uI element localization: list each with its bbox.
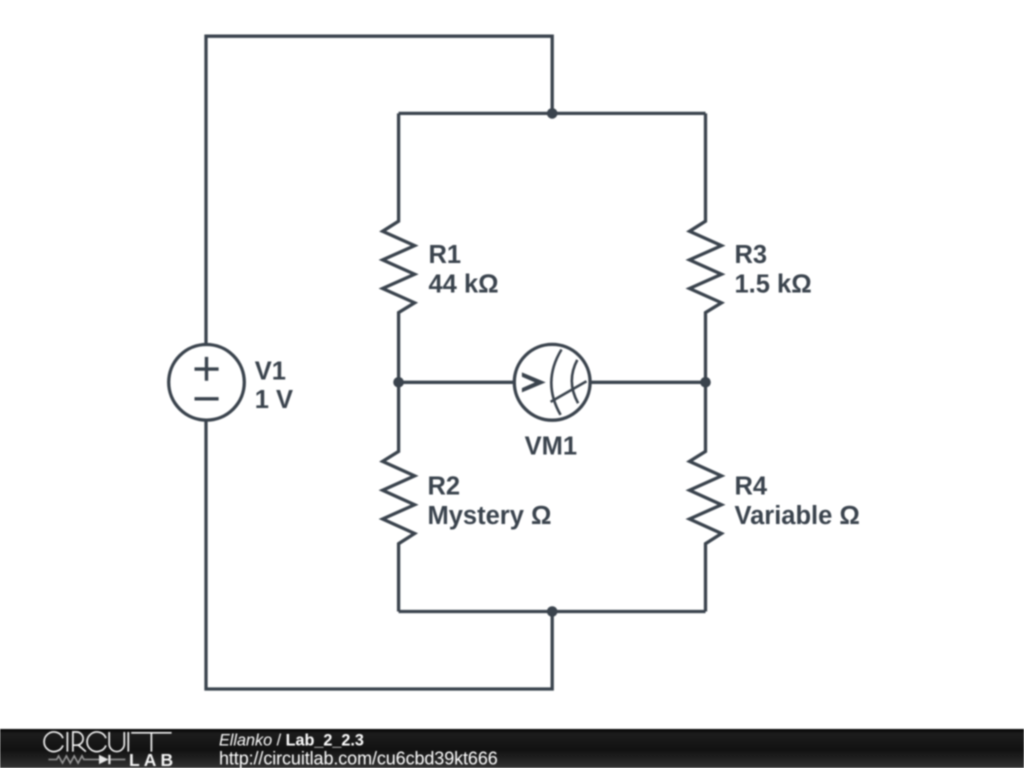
logo letter C <box>87 732 106 752</box>
junction node top <box>547 108 558 119</box>
svg-text:V1: V1 <box>255 357 286 385</box>
svg-text:VM1: VM1 <box>525 433 577 461</box>
svg-text:1.5 kΩ: 1.5 kΩ <box>735 271 812 299</box>
resistor R1 <box>383 113 415 382</box>
voltmeter chevron <box>522 372 546 392</box>
wire middle rail right <box>590 381 705 384</box>
svg-text:R4: R4 <box>735 473 768 501</box>
svg-text:http://circuitlab.com/cu6cbd39: http://circuitlab.com/cu6cbd39kt666 <box>219 748 498 768</box>
wire V1 bottom stub <box>206 421 552 689</box>
logo letter C <box>44 732 63 752</box>
svg-text:Ellanko / Lab_2_2.3: Ellanko / Lab_2_2.3 <box>219 731 364 749</box>
V1 plus sign <box>195 357 219 381</box>
resistor R4 <box>690 382 722 611</box>
resistor R2 <box>383 382 415 611</box>
V1 minus sign <box>195 397 219 400</box>
junction node middle right <box>700 377 711 388</box>
voltmeter arc large <box>551 350 561 415</box>
voltmeter arc small <box>572 360 578 403</box>
logo letter I <box>127 732 129 752</box>
logo letter T <box>131 733 171 752</box>
voltmeter VM1 circle <box>514 344 590 420</box>
svg-text:R2: R2 <box>428 473 461 501</box>
svg-text:R3: R3 <box>735 241 768 269</box>
logo resistor squiggle <box>48 756 99 763</box>
svg-text:Mystery Ω: Mystery Ω <box>428 502 552 530</box>
logo diode <box>99 755 109 764</box>
wire bridge top rail <box>399 112 706 115</box>
wire bridge bottom rail <box>399 610 706 613</box>
svg-text:R1: R1 <box>429 241 462 269</box>
svg-text:44 kΩ: 44 kΩ <box>429 271 499 299</box>
svg-text:Variable Ω: Variable Ω <box>735 502 860 530</box>
logo letter I <box>66 732 68 752</box>
wire middle rail left <box>399 381 515 384</box>
svg-text:1 V: 1 V <box>255 386 293 414</box>
resistor R3 <box>690 113 722 382</box>
voltage source V1 circle <box>169 345 245 421</box>
junction node middle left <box>393 377 404 388</box>
voltmeter needle <box>551 381 587 402</box>
logo CIRCUIT letters <box>44 732 172 752</box>
wire top outer loop V1 to bridge top <box>206 36 552 344</box>
logo letter R <box>73 732 86 752</box>
junction node bottom <box>547 606 558 617</box>
svg-text:LAB: LAB <box>129 750 177 768</box>
logo letter U <box>109 732 124 752</box>
